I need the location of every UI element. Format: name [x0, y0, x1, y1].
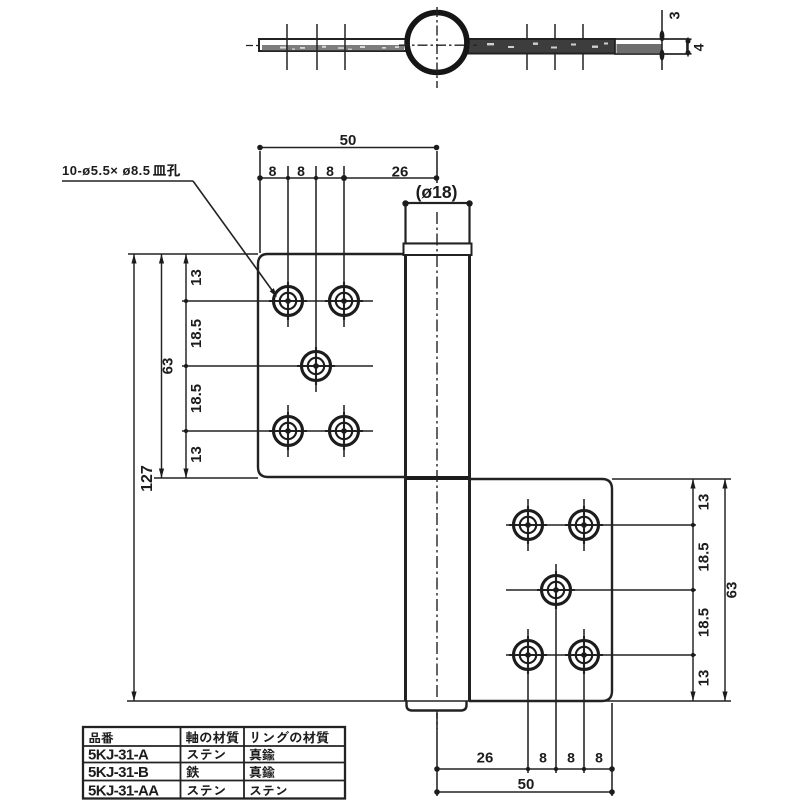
svg-text:50: 50 — [518, 776, 535, 793]
svg-text:5KJ-31-A: 5KJ-31-A — [88, 747, 149, 764]
svg-text:13: 13 — [696, 494, 713, 511]
svg-text:18.5: 18.5 — [696, 542, 713, 571]
svg-text:18.5: 18.5 — [696, 608, 713, 637]
svg-text:63: 63 — [160, 358, 177, 375]
svg-text:5KJ-31-B: 5KJ-31-B — [88, 764, 149, 781]
svg-text:3: 3 — [668, 11, 684, 19]
svg-text:26: 26 — [392, 164, 409, 181]
svg-text:127: 127 — [139, 465, 156, 492]
svg-text:8: 8 — [595, 750, 603, 766]
svg-text:63: 63 — [724, 582, 741, 599]
svg-text:26: 26 — [477, 750, 494, 767]
svg-text:8: 8 — [326, 163, 334, 179]
svg-text:13: 13 — [696, 670, 713, 687]
svg-text:8: 8 — [269, 163, 277, 179]
svg-text:8: 8 — [297, 163, 305, 179]
svg-text:(ø18): (ø18) — [416, 182, 458, 202]
svg-text:13: 13 — [188, 446, 205, 463]
svg-text:50: 50 — [340, 132, 357, 149]
svg-text:18.5: 18.5 — [188, 319, 205, 348]
svg-text:4: 4 — [691, 43, 707, 51]
svg-text:8: 8 — [539, 750, 547, 766]
svg-text:13: 13 — [188, 269, 205, 286]
svg-text:8: 8 — [567, 750, 575, 766]
svg-text:10-ø5.5× ø8.5: 10-ø5.5× ø8.5 — [62, 163, 151, 178]
svg-text:5KJ-31-AA: 5KJ-31-AA — [88, 783, 159, 800]
svg-text:18.5: 18.5 — [188, 384, 205, 413]
